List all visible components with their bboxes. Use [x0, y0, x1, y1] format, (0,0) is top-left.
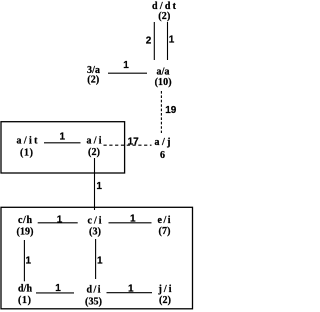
svg-text:d/i: d/i	[87, 285, 101, 296]
svg-text:(35): (35)	[85, 296, 102, 307]
svg-text:(3): (3)	[89, 227, 101, 238]
wire c/i to d/i	[95, 239, 97, 279]
node d/i	[85, 285, 102, 308]
svg-text:1: 1	[169, 35, 175, 46]
wire c/h to c/i	[38, 222, 78, 224]
svg-text:c/h: c/h	[18, 215, 32, 226]
svg-text:1: 1	[130, 213, 136, 224]
node 3/a	[87, 65, 100, 86]
svg-text:(2): (2)	[87, 75, 99, 86]
node a/j	[155, 137, 171, 161]
node c/i	[88, 216, 102, 238]
svg-text:1: 1	[128, 283, 134, 294]
node d/h	[18, 284, 32, 306]
wire d/dt to a/a (edge weight 1)	[167, 22, 169, 60]
node a/it	[17, 136, 39, 159]
svg-text:(2): (2)	[88, 147, 100, 158]
node d/dt	[152, 1, 177, 22]
svg-text:1: 1	[97, 256, 103, 267]
svg-text:(1): (1)	[18, 295, 31, 306]
node a/a	[155, 67, 172, 88]
wire a/i to c/i	[94, 158, 96, 210]
wire d/dt to a/a (edge weight 2)	[153, 22, 155, 60]
svg-text:19: 19	[165, 105, 177, 116]
wire c/i to e/i	[109, 222, 152, 224]
box cluster bottom	[1, 207, 193, 308]
svg-text:(2): (2)	[158, 11, 170, 22]
node c/h	[17, 215, 34, 238]
node j/i	[158, 284, 172, 306]
svg-text:c/i: c/i	[88, 216, 102, 227]
svg-text:(1): (1)	[20, 148, 33, 159]
box cluster a	[1, 122, 125, 173]
svg-text:2: 2	[146, 36, 152, 47]
svg-text:1: 1	[26, 256, 32, 267]
svg-text:e/i: e/i	[158, 215, 171, 226]
wire 3/a to a/a	[108, 72, 147, 74]
svg-text:1: 1	[123, 60, 129, 71]
svg-text:(19): (19)	[17, 227, 34, 238]
wire a/i to a/j (dashed)	[104, 144, 152, 146]
svg-text:d/h: d/h	[18, 284, 32, 295]
wire c/h to d/h	[23, 240, 25, 281]
svg-text:1: 1	[96, 181, 102, 192]
svg-text:1: 1	[60, 132, 66, 143]
svg-text:a/j: a/j	[155, 137, 171, 148]
svg-text:(10): (10)	[155, 77, 172, 88]
svg-text:(7): (7)	[159, 226, 171, 237]
svg-text:17: 17	[128, 137, 140, 148]
wire d/i to j/i	[107, 292, 153, 294]
wire a/a to a/j (dashed)	[160, 91, 162, 133]
svg-text:a/i: a/i	[87, 135, 102, 146]
wire d/h to d/i	[36, 292, 74, 294]
svg-text:j/i: j/i	[158, 284, 172, 295]
svg-text:6: 6	[160, 150, 165, 161]
svg-text:(2): (2)	[159, 295, 171, 306]
node e/i	[158, 215, 171, 237]
node a/i	[87, 135, 102, 157]
svg-text:1: 1	[55, 283, 61, 294]
svg-text:1: 1	[57, 214, 63, 225]
wire a/it to a/i	[44, 142, 81, 144]
